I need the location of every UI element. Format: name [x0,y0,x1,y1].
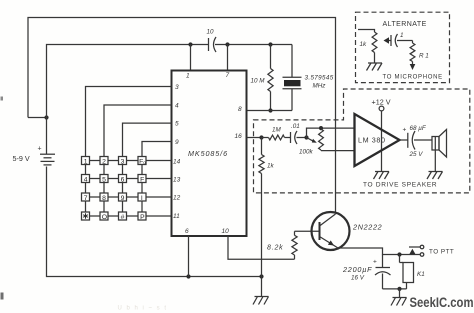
wire inner V+ rail left segment [47,45,209,118]
keypad button F [138,175,146,184]
node pin16 junction [259,135,263,139]
wire pin 1 [190,45,192,71]
keypad button P [138,212,146,221]
node pot top junction [319,126,323,130]
wire keypad row 3 to pin 12 [90,196,172,198]
wire keypad column 2 segments [103,165,105,213]
svg-text:K1: K1 [417,271,425,278]
wire pin 9 to keypad column 4 [142,142,172,157]
resistor R1 [410,41,429,71]
ground speaker [427,150,443,179]
svg-text:14: 14 [173,159,181,166]
svg-text:R 1: R 1 [419,53,429,60]
svg-text:6: 6 [121,176,125,183]
relay coil K1 [400,255,425,289]
svg-text:3.579545: 3.579545 [305,75,334,82]
wire pin 10 to 8.2k [228,236,295,259]
svg-text:100k: 100k [299,149,314,156]
node ground bottom junction [259,274,263,278]
svg-text:4: 4 [175,103,179,110]
svg-text:+: + [38,146,42,153]
svg-text:LM 380: LM 380 [358,136,386,145]
wire pin 7 [227,45,229,71]
crystal Y1 3.579545 MHz [283,45,334,111]
wire base [295,230,320,232]
svg-text:1: 1 [400,32,404,39]
node relay ground junction [397,287,401,291]
node coupling junction [304,135,308,139]
svg-text:4: 4 [84,176,88,183]
svg-text:16 V: 16 V [351,275,365,282]
dashed box ALTERNATE [356,12,450,82]
keypad button 4 [82,175,90,184]
capacitor C5 68uF 25V [403,125,433,158]
node 10M bottom junction [268,108,272,112]
wire pin 5 to keypad column 3 [123,123,172,156]
terminal +12V [372,98,391,111]
capacitor C4 2200uF 16V [342,255,391,289]
op-amp U2 LM380 [355,114,400,166]
capacitor C 10 top [207,29,217,53]
wire V+ top outer rail to collector [28,18,336,213]
svg-text:6: 6 [185,228,189,235]
svg-text:+: + [373,259,377,266]
svg-text:8.2k: 8.2k [267,245,283,252]
svg-text:5: 5 [102,176,106,183]
svg-text:.01: .01 [291,123,300,130]
svg-text:9: 9 [175,139,179,146]
resistor 8.2k [267,231,297,259]
wire battery minus to bottom rail [47,167,262,277]
svg-text:MK5085/6: MK5085/6 [188,149,228,158]
wire keypad row 4 to pin 11 [90,215,172,217]
ground bottom rail [253,277,269,305]
wire +12V to ground through LM380 [381,111,383,172]
keypad button 6 [119,175,127,184]
svg-text:U b h i ~ s t: U b h i ~ s t [118,306,168,312]
wire pin 8 [247,110,293,112]
wire pin 16 [247,137,262,139]
keypad button * [82,212,90,220]
potentiometer 100k [299,129,323,156]
node 10M top junction [268,42,272,46]
op-amp U1 MK5085/6 IC body [172,71,247,237]
resistor 1M [262,127,291,140]
capacitor C .1 alternate [391,32,413,47]
wire inner V+ rail right segment [215,44,292,46]
speaker LS1 [432,130,447,158]
keypad button 5 [100,175,108,184]
svg-text:#: # [121,214,125,221]
svg-text:1: 1 [84,158,88,165]
svg-text:TO MICROPHONE: TO MICROPHONE [383,75,443,81]
svg-text:25 V: 25 V [409,151,424,158]
svg-text:O: O [102,214,107,221]
wire keypad row 1 to pin 14 [90,160,172,162]
svg-text:+: + [403,127,407,134]
svg-text:13: 13 [173,177,181,184]
node pin1 junction [188,42,192,46]
svg-text:10 M: 10 M [251,78,266,85]
keypad button 9 [119,193,127,202]
wire to pot top and LM380 input [307,128,355,137]
wire keypad row 2 to pin 13 [90,178,172,180]
svg-text:1M: 1M [272,127,282,134]
wire emitter rail to PTT [338,248,420,255]
svg-text:8: 8 [102,195,106,202]
wire LM380 output [400,139,408,141]
svg-text:11: 11 [173,213,180,220]
scan artifact left edge specks [1,97,4,101]
wire pin 3 to keypad column 1 [86,87,172,157]
svg-text:TO PTT: TO PTT [429,249,454,256]
ground alternate pot [367,63,383,71]
keypad button I [138,193,146,202]
svg-text:P: P [140,214,145,221]
svg-text:8: 8 [238,106,242,113]
potentiometer 1k alternate [358,30,391,64]
keypad button 8 [100,193,108,202]
svg-text:5: 5 [175,121,179,128]
keypad button 2 [100,157,108,166]
node emitter K1 junction [397,252,401,256]
svg-text:68 µF: 68 µF [410,125,427,132]
keypad button O [100,212,108,221]
svg-text:+12 V: +12 V [372,98,391,107]
svg-text:5-9 V: 5-9 V [13,154,30,163]
svg-text:1k: 1k [267,163,275,170]
wire pot bottom to LM380 input [320,149,322,152]
svg-text:I: I [141,195,143,202]
svg-text:1: 1 [186,73,190,80]
dashed box audio section [254,89,470,193]
ground LM380 [374,172,390,180]
node pin6 bottom junction [186,274,190,278]
svg-text:o: o [143,160,146,165]
keypad button # [119,212,127,221]
svg-text:10: 10 [207,29,215,36]
wire keypad column 1 segments [85,165,87,213]
svg-text:MHz: MHz [313,83,327,90]
wire keypad column 3 segments [122,165,124,213]
wire battery plus jog [28,117,47,119]
svg-text:10: 10 [222,228,230,235]
node battery plus junction [44,115,48,119]
svg-text:SeekIC.com: SeekIC.com [410,295,474,310]
keypad button 3 [119,157,127,166]
resistor 10M [251,45,274,111]
svg-text:1k: 1k [360,41,368,48]
node pin7 junction [225,42,229,46]
transistor Q1 2N2222 [312,212,383,250]
keypad button 7 [82,193,90,202]
wire relay bottom rail [383,288,407,290]
svg-text:7: 7 [84,195,88,202]
svg-text:3: 3 [175,84,179,91]
svg-text:16: 16 [235,133,243,140]
svg-text:F: F [140,176,144,183]
ground relay [391,289,407,306]
keypad button 1 [82,157,90,166]
svg-text:2: 2 [102,158,106,165]
keypad button Fo [138,157,146,166]
wire pin 4 to keypad column 2 [104,105,172,157]
svg-text:7: 7 [226,72,230,79]
resistor 1k [259,138,275,277]
svg-text:12: 12 [173,195,181,202]
capacitor C .01 [291,123,307,144]
svg-text:TO DRIVE SPEAKER: TO DRIVE SPEAKER [363,182,437,189]
wire keypad column 4 segments [141,165,143,213]
battery B1 5-9V [13,118,56,165]
svg-text:3: 3 [121,158,125,165]
svg-text:2200µF: 2200µF [342,265,372,274]
relay contact TO PTT [409,245,454,256]
svg-text:2N2222: 2N2222 [352,223,382,232]
svg-text:ALTERNATE: ALTERNATE [383,21,427,28]
wire pin 6 down [188,236,190,277]
svg-text:9: 9 [121,195,125,202]
